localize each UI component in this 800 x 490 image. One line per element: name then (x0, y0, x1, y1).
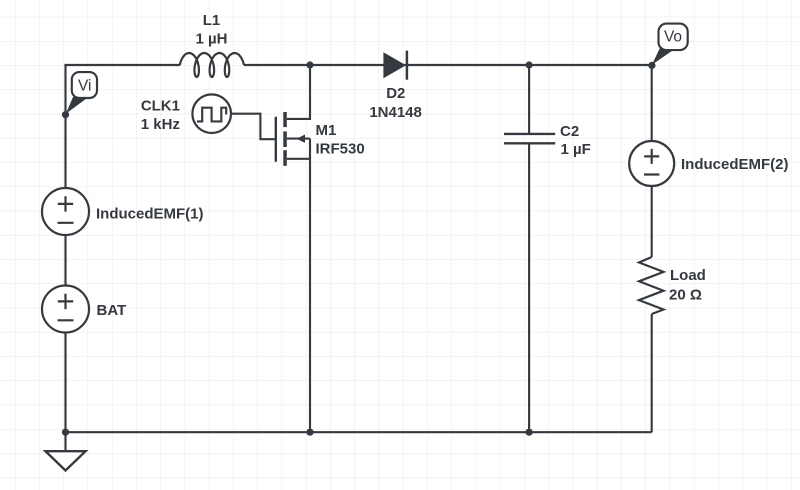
voltage source InducedEMF(2) (629, 141, 788, 186)
diode D2 (369, 51, 422, 121)
wire right rail lower (651, 314, 653, 432)
voltage source InducedEMF(1) (42, 188, 204, 235)
svg-text:CLK1: CLK1 (141, 98, 180, 115)
svg-text:C2: C2 (560, 123, 579, 140)
voltage source BAT (42, 286, 126, 333)
wire right rail upper (651, 65, 653, 141)
wire between sources (64, 235, 66, 286)
svg-text:BAT: BAT (97, 302, 127, 319)
inductor L1 (180, 53, 244, 77)
svg-text:L1: L1 (203, 12, 221, 29)
svg-text:IRF530: IRF530 (316, 141, 365, 158)
node source junction (306, 429, 313, 436)
transistor M1 (276, 65, 365, 432)
svg-text:1 µH: 1 µH (196, 31, 228, 48)
wire bottom rail (66, 431, 652, 433)
wire gate (231, 114, 275, 140)
node capacitor top junction (526, 61, 533, 68)
node drain junction (306, 61, 313, 68)
svg-text:Vo: Vo (664, 29, 682, 46)
svg-text:D2: D2 (386, 85, 405, 102)
svg-text:1 µF: 1 µF (561, 141, 591, 158)
capacitor C2 (504, 65, 591, 432)
wire left rail upper (64, 65, 66, 188)
svg-text:M1: M1 (316, 122, 337, 139)
svg-text:1N4148: 1N4148 (369, 104, 422, 121)
svg-text:Vi: Vi (78, 78, 92, 95)
node Vi flag (62, 72, 97, 118)
node Vo flag (648, 24, 687, 69)
node dot ground junction (62, 429, 69, 436)
svg-text:1 kHz: 1 kHz (141, 116, 180, 133)
svg-text:InducedEMF(2): InducedEMF(2) (681, 156, 789, 173)
node capacitor bottom junction (526, 429, 533, 436)
clock source CLK1 (141, 94, 231, 133)
wire top rail right segment (244, 64, 652, 66)
wire left rail lower (64, 333, 66, 433)
svg-text:20 Ω: 20 Ω (669, 287, 702, 304)
svg-text:InducedEMF(1): InducedEMF(1) (96, 206, 204, 223)
resistor Load (639, 257, 706, 314)
wire right rail middle (651, 186, 653, 257)
ground (46, 432, 86, 470)
wire top rail left segment (66, 65, 181, 66)
svg-text:Load: Load (670, 267, 706, 284)
